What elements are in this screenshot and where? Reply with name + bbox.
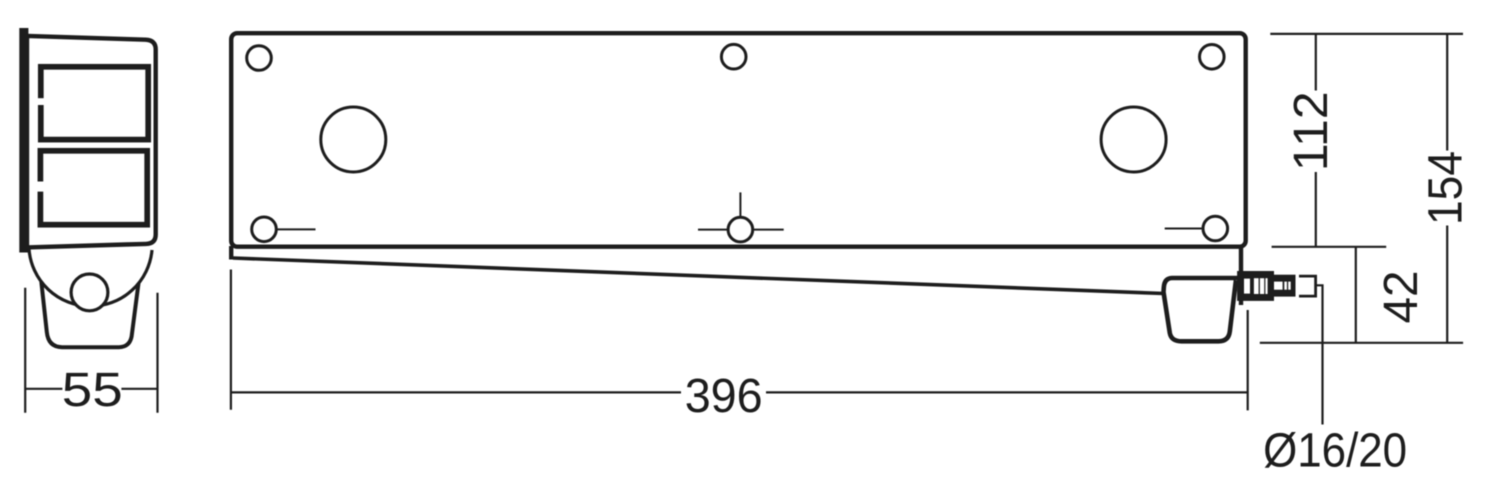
hole bottom-left (252, 217, 277, 242)
svg-text:55: 55 (62, 363, 123, 417)
tray right edge drop (1239, 246, 1243, 305)
svg-text:112: 112 (1284, 91, 1338, 171)
hole top-middle (721, 44, 746, 69)
drain spout outlet (1164, 278, 1244, 341)
centerline bottom-left hole (278, 228, 316, 230)
dimension 55 extension line right (156, 293, 158, 413)
centerline bottom-middle hole left (698, 229, 728, 231)
hole top-left (247, 46, 272, 71)
extension line middle right (1272, 246, 1387, 248)
barb stripe G (1288, 282, 1291, 290)
hole bottom-right (1203, 216, 1228, 241)
dimension 396 extension line left (230, 270, 232, 410)
gap in lower rectangle left edge (35, 182, 47, 192)
dimension 42 line (1355, 247, 1357, 343)
centerline bottom-right hole (1165, 228, 1202, 230)
svg-text:42: 42 (1374, 271, 1428, 324)
side view drain circle (71, 274, 108, 311)
hose barb block 2 (1274, 275, 1296, 297)
dimension 154 line upper segment (1446, 34, 1448, 151)
side view funnel spout (41, 282, 138, 348)
hose barb block 1 (1237, 271, 1274, 301)
dimension 112 line upper segment (1315, 34, 1317, 91)
dimension 396 extension line right (1247, 310, 1249, 410)
dimension 55 line right segment (121, 388, 157, 390)
barb stripe A (1244, 279, 1250, 294)
dimension 112 line lower segment (1315, 172, 1317, 247)
barb notch E (1274, 282, 1283, 290)
svg-text:154: 154 (1419, 151, 1473, 225)
extension line top right (1270, 33, 1463, 35)
barb stripe D (1265, 278, 1267, 294)
tray sloped bottom (233, 258, 1164, 294)
large circle right (1101, 107, 1166, 172)
extension line bottom right (1260, 342, 1463, 344)
hose clamp bracket (1299, 276, 1316, 296)
side view body outline (27, 36, 156, 248)
large circle left (321, 107, 386, 172)
tray left edge drop (229, 246, 233, 260)
barb stripe B (1254, 278, 1259, 294)
svg-text:Ø16/20: Ø16/20 (1263, 423, 1407, 477)
dimension 396 line left segment (231, 391, 681, 393)
side view upper inner rectangle (41, 67, 148, 140)
gap in upper rectangle left edge (35, 98, 47, 105)
panel outline (231, 33, 1245, 247)
barb stripe C (1260, 278, 1264, 294)
dimension 396 line right segment (766, 391, 1248, 393)
side view lower inner rectangle (40, 151, 147, 225)
centerline bottom-middle hole right (753, 229, 784, 231)
dimension 55 line left segment (25, 388, 62, 390)
hole top-right (1200, 45, 1225, 70)
leader line to hose label (1316, 285, 1323, 424)
barb stripe F (1284, 282, 1287, 290)
side view mounting bar (19, 28, 28, 253)
svg-text:396: 396 (685, 369, 763, 423)
dimension 55 extension line left (24, 288, 26, 413)
centerline bottom-middle hole vertical (739, 192, 741, 217)
hole bottom-middle (728, 217, 753, 242)
dimension 154 line lower segment (1446, 226, 1448, 343)
side view bowl arc (29, 249, 152, 306)
